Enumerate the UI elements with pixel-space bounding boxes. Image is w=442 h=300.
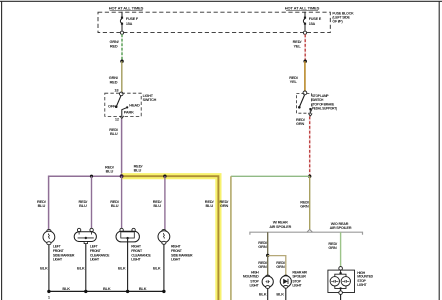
svg-text:BLK: BLK: [276, 291, 284, 296]
svg-text:BLU: BLU: [79, 203, 87, 208]
wire RED/YEL solid (splice to stop lamp switch): [304, 61, 306, 91]
label HIGH MOUNTED STOP LIGHT: [243, 270, 260, 287]
svg-text:BLK: BLK: [153, 266, 161, 271]
svg-text:OF I/P): OF I/P): [332, 20, 342, 24]
wire GRN/RED dashed (fuse F to splice): [121, 34, 123, 60]
svg-text:LIGHT: LIGHT: [357, 283, 367, 287]
svg-text:GRN: GRN: [220, 203, 229, 208]
svg-text:SIDE MARKER: SIDE MARKER: [53, 253, 75, 257]
svg-text:RIGHT: RIGHT: [131, 245, 142, 249]
svg-text:BLU: BLU: [205, 203, 213, 208]
wire RED/GRN dashed (stop lamp switch to splice): [309, 116, 311, 175]
label RED/YEL: [293, 39, 303, 48]
wire BLK (clearance right): [127, 238, 129, 291]
wire BLK (side marker right): [163, 245, 165, 292]
wire BLK (side marker left): [48, 245, 50, 292]
label GRN/RED: [109, 75, 119, 84]
svg-text:CLEARANCE: CLEARANCE: [131, 253, 151, 257]
wire BLK ground bus: [49, 290, 164, 292]
wire GRN/RED solid (splice to light switch): [121, 61, 123, 92]
label STOP LAMP SWITCH (TOP OF BRAKE PEDAL SUPPORT): [312, 94, 337, 110]
junction (light switch feed): [120, 174, 124, 178]
svg-text:RED: RED: [110, 79, 118, 84]
lamp: rear air spoiler stop light: [280, 275, 291, 300]
svg-text:FRONT: FRONT: [90, 249, 102, 253]
wire RED/GRN (to spoiler split): [309, 176, 311, 229]
svg-text:FRONT: FRONT: [53, 249, 65, 253]
svg-text:FUSE F: FUSE F: [126, 17, 139, 21]
svg-text:FUSE E: FUSE E: [309, 17, 322, 21]
svg-text:LEFT: LEFT: [53, 245, 62, 249]
svg-text:BLK: BLK: [118, 266, 126, 271]
label HIGH MOUNTED STOP LIGHT: [357, 271, 373, 287]
svg-text:GRN: GRN: [276, 264, 285, 269]
wire RED/GRN horizontal: [231, 175, 310, 177]
label RED/GRN: [296, 117, 306, 126]
svg-text:OFF: OFF: [108, 103, 116, 108]
lamp: right front side marker light: [158, 229, 170, 244]
svg-text:AIR SPOILER: AIR SPOILER: [269, 225, 291, 229]
svg-text:SWITCH: SWITCH: [143, 98, 157, 102]
svg-text:RED: RED: [110, 43, 118, 48]
svg-text:LIGHT: LIGHT: [250, 283, 260, 287]
svg-text:FRONT: FRONT: [171, 249, 183, 253]
wire RED/GRN (left spoiler branch): [267, 232, 269, 255]
svg-text:BLU: BLU: [106, 169, 114, 174]
label W/ REAR AIR SPOILER: [269, 221, 291, 229]
wire RED/BLU drop to right side marker: [164, 176, 166, 229]
label RED/BLU (x165 drop): [153, 199, 163, 208]
label RIGHT FRONT SIDE MARKER LIGHT: [171, 245, 193, 262]
label RIGHT FRONT CLEARANCE LIGHT: [131, 245, 151, 262]
svg-text:SPOILER: SPOILER: [292, 275, 306, 279]
splice (left): [120, 59, 124, 63]
svg-text:PEDAL SUPPORT): PEDAL SUPPORT): [312, 106, 337, 110]
svg-text:BLK: BLK: [40, 266, 48, 271]
svg-text:AIR SPOILER: AIR SPOILER: [330, 226, 352, 230]
junction: [126, 290, 129, 293]
svg-text:GRN: GRN: [300, 204, 309, 209]
wire RED/GRN (right spoiler branch): [340, 232, 342, 267]
wire RED/BLU drop to left clearance light: [91, 176, 93, 228]
junction: [84, 290, 87, 293]
wire BLK (clearance left): [85, 244, 87, 292]
label RED/BLU (left of junction): [105, 164, 115, 173]
junction: [47, 290, 50, 293]
svg-text:SIDE MARKER: SIDE MARKER: [171, 253, 193, 257]
svg-text:LIGHT: LIGHT: [131, 258, 141, 262]
junction: [163, 175, 166, 178]
svg-text:LIGHT: LIGHT: [90, 258, 100, 262]
label RED/BLU (x49 drop): [37, 199, 47, 208]
svg-text:HEAD: HEAD: [129, 103, 140, 108]
lamp: left front clearance light: [74, 228, 96, 243]
svg-text:CLEARANCE: CLEARANCE: [90, 253, 110, 257]
svg-text:LIGHT: LIGHT: [292, 283, 302, 287]
junction: [162, 290, 165, 293]
label RED/GRN: [258, 260, 268, 269]
svg-text:YEL: YEL: [293, 43, 301, 48]
svg-text:GRN: GRN: [258, 244, 267, 249]
svg-text:GRN: GRN: [258, 264, 267, 269]
label FUSE E 15A: [309, 17, 322, 26]
label RED/GRN: [328, 241, 338, 250]
splice (right): [303, 59, 307, 63]
wire RED/BLU drop to right clearance light: [121, 176, 123, 228]
option split caret: [307, 229, 312, 232]
label RED/GRN: [276, 260, 286, 269]
label RED/BLU (yellow wire): [205, 199, 215, 208]
fuse block box (dashed): [98, 12, 330, 32]
svg-text:BLU: BLU: [110, 131, 118, 136]
label LIGHT SWITCH: [143, 94, 157, 102]
svg-text:GRN: GRN: [328, 245, 337, 250]
wire RED/BLU horizontal (to front lights): [49, 176, 122, 229]
svg-text:BLK: BLK: [62, 286, 70, 291]
label RED/BLU (x91 drop): [78, 199, 88, 208]
label RED/BLU (right of junction): [134, 164, 144, 173]
label RED/BLU: [109, 127, 119, 136]
fuse E: [303, 12, 306, 35]
svg-text:15A: 15A: [126, 22, 133, 26]
option split line: [250, 232, 363, 235]
splice (spoiler branch): [266, 254, 269, 257]
svg-text:PARK: PARK: [124, 110, 134, 115]
wire RED/GRN to high mounted stop light: [267, 255, 269, 275]
svg-text:BLK: BLK: [259, 291, 267, 296]
label HOT AT ALL TIMES (left): [109, 6, 144, 11]
wire RED/GRN (down offpage): [230, 176, 232, 300]
wire RED/BLU (light switch down): [121, 119, 123, 176]
label FUSE F 15A: [126, 17, 139, 26]
wire RED/YEL dashed (fuse E to splice): [304, 34, 306, 60]
lamp: high mounted stop light (w/ spoiler): [262, 275, 273, 300]
svg-text:BLK: BLK: [77, 266, 85, 271]
svg-text:BLU: BLU: [111, 203, 119, 208]
svg-text:BLK: BLK: [103, 286, 111, 291]
label HOT AT ALL TIMES (right): [285, 6, 320, 11]
svg-text:YEL: YEL: [290, 79, 298, 84]
label LEFT FRONT CLEARANCE LIGHT: [90, 245, 110, 262]
label RED/YEL: [289, 75, 299, 84]
svg-text:LEFT: LEFT: [90, 245, 99, 249]
junction (stop lamp feed): [308, 175, 311, 178]
label LEFT FRONT SIDE MARKER LIGHT: [53, 245, 75, 262]
label RED/GRN: [300, 200, 310, 209]
svg-text:BLU: BLU: [153, 203, 161, 208]
label RED/GRN: [258, 240, 268, 249]
label FUSE BLOCK (LEFT SIDE OF I/P): [332, 12, 354, 24]
svg-text:BLU: BLU: [134, 168, 142, 173]
stop lamp switch: [296, 91, 312, 116]
label REAR AIR SPOILER STOP LIGHT: [292, 270, 307, 287]
svg-text:MOUNTED: MOUNTED: [243, 275, 259, 279]
wire RED/GRN to spoiler stop light: [268, 256, 286, 276]
svg-text:SWITCH: SWITCH: [312, 98, 324, 102]
svg-text:BLU: BLU: [38, 203, 46, 208]
svg-text:HOT AT ALL TIMES: HOT AT ALL TIMES: [109, 6, 144, 11]
svg-text:LIGHT: LIGHT: [53, 258, 63, 262]
svg-text:15A: 15A: [309, 22, 316, 26]
lamp: high mounted stop light (w/o spoiler, dual bulb): [328, 267, 355, 300]
junction: [90, 175, 93, 178]
light switch: [105, 92, 141, 121]
svg-text:LIGHT: LIGHT: [171, 258, 181, 262]
svg-text:GRN: GRN: [296, 121, 305, 126]
wire RED/BLU highlighted (yellow): [122, 176, 219, 300]
label RED/BLU (x122 drop): [110, 199, 120, 208]
svg-text:RIGHT: RIGHT: [171, 245, 182, 249]
lamp: right front clearance light: [116, 228, 139, 242]
svg-text:FRONT: FRONT: [131, 249, 143, 253]
label GRN/RED: [109, 39, 119, 48]
svg-text:BLK: BLK: [139, 286, 147, 291]
fuse F: [120, 12, 123, 35]
lamp: left front side marker light: [43, 229, 55, 244]
label RED/GRN (x231 wire): [219, 199, 229, 208]
svg-text:HOT AT ALL TIMES: HOT AT ALL TIMES: [285, 6, 320, 11]
svg-text:MOUNTED: MOUNTED: [357, 275, 373, 279]
label W/O REAR AIR SPOILER: [330, 222, 352, 230]
